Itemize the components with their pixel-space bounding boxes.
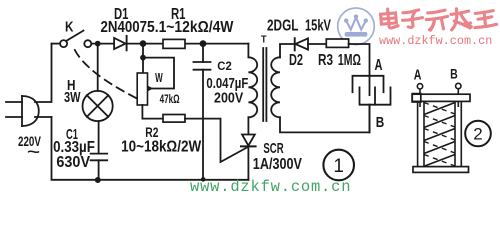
svg-text:A: A <box>414 65 422 82</box>
svg-text:15kV: 15kV <box>305 17 332 34</box>
svg-text:200V: 200V <box>214 90 244 106</box>
svg-text:1MΩ: 1MΩ <box>338 51 361 69</box>
svg-text:W: W <box>155 71 163 85</box>
svg-text:T: T <box>261 34 267 46</box>
svg-text:D2: D2 <box>289 51 303 69</box>
svg-text:www.dzkfw.com.cn: www.dzkfw.com.cn <box>379 34 492 48</box>
svg-text:SCR: SCR <box>263 140 283 157</box>
svg-text:K: K <box>65 18 74 35</box>
svg-text:A: A <box>375 56 383 73</box>
svg-text:630V: 630V <box>56 153 90 171</box>
svg-text:2: 2 <box>473 125 482 144</box>
svg-text:5.1~12kΩ/4W: 5.1~12kΩ/4W <box>147 18 234 36</box>
svg-text:B: B <box>450 66 458 82</box>
svg-text:47kΩ: 47kΩ <box>160 94 180 107</box>
svg-text:10~18kΩ/2W: 10~18kΩ/2W <box>121 138 201 155</box>
svg-text:www.dzkfw.com.cn: www.dzkfw.com.cn <box>190 178 351 196</box>
svg-text:C2: C2 <box>217 60 232 73</box>
svg-text:3W: 3W <box>64 88 81 105</box>
svg-text:2DGL: 2DGL <box>267 16 299 34</box>
svg-text:R3: R3 <box>318 50 333 68</box>
svg-text:1: 1 <box>333 156 344 177</box>
svg-text:~: ~ <box>27 144 40 161</box>
svg-text:0.047µF: 0.047µF <box>206 74 248 91</box>
svg-text:2N4007: 2N4007 <box>101 19 147 36</box>
svg-text:1A/300V: 1A/300V <box>253 156 302 174</box>
svg-text:B: B <box>376 114 385 131</box>
